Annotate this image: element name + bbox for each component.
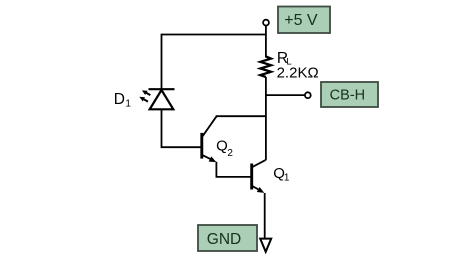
label Q1 xyxy=(273,165,290,183)
ground xyxy=(260,239,271,252)
label Q2 xyxy=(216,137,233,158)
svg-text:2: 2 xyxy=(227,148,233,159)
label box +5 V xyxy=(278,7,330,34)
terminal CB-H xyxy=(305,92,311,98)
terminal +5V xyxy=(263,20,269,26)
svg-text:Q: Q xyxy=(216,137,228,154)
wire top horizontal from D1 branch to +5V rail xyxy=(162,35,266,90)
svg-text:2.2KΩ: 2.2KΩ xyxy=(277,64,319,81)
wire Q2 collector to rail xyxy=(216,115,266,117)
photodiode D1 xyxy=(139,89,174,109)
transistor Q2 xyxy=(202,116,217,162)
wire CB-H tap horizontal xyxy=(266,94,305,96)
wire Q2 emitter down and right to Q1 base xyxy=(216,162,250,177)
svg-text:GND: GND xyxy=(207,231,241,248)
svg-text:1: 1 xyxy=(125,98,131,109)
wire D1 anode down and right to Q2 base xyxy=(162,109,201,147)
label RL xyxy=(277,50,292,67)
transistor Q1 xyxy=(252,160,266,193)
wire Q1 emitter down to ground xyxy=(264,193,266,239)
svg-text:D: D xyxy=(114,91,125,108)
label box CB-H xyxy=(321,82,378,107)
svg-text:1: 1 xyxy=(284,172,290,183)
svg-text:CB-H: CB-H xyxy=(330,88,365,104)
svg-text:+5 V: +5 V xyxy=(284,12,318,29)
resistor RL xyxy=(260,57,271,78)
wire +5V terminal down to resistor top xyxy=(265,26,267,58)
label D1 xyxy=(114,91,132,109)
label box GND xyxy=(198,225,257,251)
wire resistor bottom down through CB-H junction to Q1 collector xyxy=(265,77,267,160)
label 2.2KΩ xyxy=(277,64,319,81)
